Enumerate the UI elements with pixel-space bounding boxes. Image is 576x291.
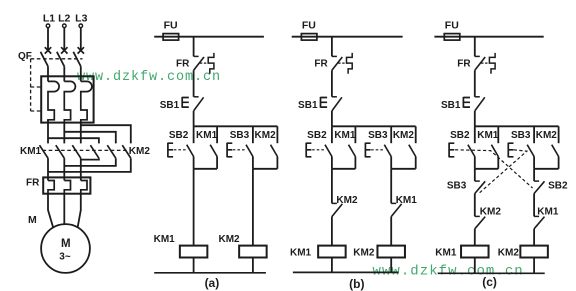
svg-text:(a): (a) — [205, 276, 220, 290]
(c) contact KM1 self-hold — [497, 126, 499, 143]
(c) stop button SB1 NC — [475, 96, 480, 98]
wire jumper phase1 to KM2 bank — [48, 138, 99, 143]
svg-text:KM1: KM1 — [435, 247, 457, 258]
(c) interlock KM1 NC contact — [534, 215, 539, 217]
thermal relay FR element 1 — [48, 181, 54, 194]
(a) wire SB3 down — [252, 157, 254, 169]
motor M 3-phase — [41, 224, 90, 273]
svg-text:KM2: KM2 — [353, 247, 375, 258]
(b) contact KM2 self-hold — [415, 126, 417, 143]
(b) rejoin wire left pair — [332, 168, 356, 170]
contactor KM2 main contact 1 blade — [90, 145, 99, 158]
svg-text:FU: FU — [445, 19, 459, 31]
contactor KM1 main contact 2 blade — [56, 145, 65, 158]
wire L3 down — [80, 28, 82, 51]
KM linkage dashed — [43, 149, 129, 151]
(c) wire SB1 to branch node — [474, 111, 476, 126]
(c) wire SB3 down — [533, 157, 535, 169]
(c) coil KM1 to bottom bus — [474, 258, 476, 274]
(c) button SB3 NC contact left branch — [474, 169, 476, 181]
(a) bottom bus — [154, 272, 266, 274]
svg-text:KM2: KM2 — [498, 247, 520, 258]
(c) wire bus to FR — [474, 37, 476, 57]
svg-text:FR: FR — [314, 58, 328, 69]
svg-text:FR: FR — [26, 178, 40, 189]
(a) control bus with fuse FU — [154, 36, 264, 38]
(b) start button SB2 NO contact — [331, 126, 333, 143]
svg-text:KM2: KM2 — [336, 195, 358, 206]
svg-text:SB1: SB1 — [160, 100, 180, 111]
(a) branch wire — [194, 125, 278, 127]
(b) bottom bus — [293, 271, 399, 273]
(b) FR NC contact — [332, 55, 337, 57]
(b) wire bus to FR — [331, 37, 333, 57]
svg-text:M: M — [28, 214, 37, 226]
svg-text:(c): (c) — [482, 275, 497, 289]
contactor KM2 main contact 3 blade — [122, 145, 131, 158]
(c) mechanical link SB2 dashed — [455, 150, 533, 188]
(c) interlock KM2 NC contact — [475, 215, 480, 217]
(c) wire FR to SB1 — [474, 70, 476, 97]
breaker QF pole 2 blade — [57, 52, 65, 67]
(b) coil KM2 to bottom bus — [390, 258, 392, 273]
svg-text:SB2: SB2 — [169, 130, 189, 141]
wire phase2 to FR — [63, 158, 65, 180]
svg-text:QF: QF — [18, 51, 32, 62]
(b) control bus with fuse FU — [292, 36, 403, 38]
svg-text:KM1: KM1 — [20, 146, 42, 157]
(a) rejoin wire left pair — [194, 168, 218, 170]
wire QF pole 2 to trip box — [63, 66, 65, 81]
breaker QF pole 1 blade — [41, 52, 49, 67]
(a) contact KM1 self-hold — [216, 126, 218, 143]
svg-text:L2: L2 — [58, 12, 70, 24]
svg-text:KM1: KM1 — [396, 195, 418, 206]
svg-text:KM1: KM1 — [154, 234, 176, 245]
svg-text:SB2: SB2 — [450, 130, 470, 141]
(b) stop button SB1 NC — [332, 96, 337, 98]
(c) button SB2 NC contact right branch — [533, 169, 535, 181]
wire pole2 to KM1 bank — [63, 123, 65, 144]
(c) bottom bus — [438, 272, 545, 274]
wire KM2 outputs to phase2 — [64, 158, 116, 166]
svg-text:SB3: SB3 — [447, 180, 467, 191]
wire FR to motor V — [63, 194, 65, 225]
(b) contact KM1 self-hold — [354, 126, 356, 143]
wire QF pole 1 to trip box — [47, 66, 49, 81]
(a) coil KM1 to bottom bus — [193, 258, 195, 273]
wire QF pole 3 to trip box — [80, 66, 82, 81]
breaker QF pole 3 trip element — [81, 81, 92, 122]
(b) wire SB3 down — [390, 157, 392, 169]
(c) mechanical link SB3 dashed — [479, 150, 527, 193]
breaker QF linkage dashed — [31, 58, 83, 60]
(b) wire FR to SB1 — [331, 70, 333, 97]
(b) wire KM2 NC to coil — [331, 217, 333, 246]
(a) start button SB2 NO contact — [193, 126, 195, 143]
svg-text:KM2: KM2 — [480, 206, 502, 217]
svg-text:SB1: SB1 — [298, 100, 318, 111]
wire FR to motor U — [48, 194, 53, 228]
svg-text:SB2: SB2 — [307, 130, 327, 141]
thermal relay FR element 2 — [64, 181, 70, 194]
breaker QF trip unit box — [41, 76, 93, 122]
(b) wire SB1 to branch node — [331, 111, 333, 126]
contactor KM1 main contact 3 blade — [72, 145, 81, 158]
(c) start button SB3 NO contact — [533, 126, 535, 143]
(a) wire SB1 to branch node — [193, 111, 195, 126]
wire jumper phase2 to KM2 bank — [64, 132, 116, 144]
wire phase3 to FR — [80, 158, 82, 180]
wire L1 down — [47, 28, 49, 51]
svg-text:SB2: SB2 — [548, 180, 568, 191]
svg-text:www.dzkfw.com.cn: www.dzkfw.com.cn — [77, 70, 221, 85]
breaker QF pole 2 contact X — [61, 47, 67, 53]
(b) wire KM1 NC to coil — [390, 217, 392, 246]
(a) wire to coil KM1 — [193, 169, 195, 246]
(a) start button SB3 NO contact — [252, 126, 254, 143]
(c) contact KM2 self-hold — [558, 126, 560, 143]
(a) coil KM2 — [239, 246, 267, 258]
(b) interlock KM1 NC contact — [390, 169, 392, 204]
svg-text:L1: L1 — [43, 12, 55, 24]
(a) FR NC contact — [194, 55, 199, 57]
wire L2 down — [63, 28, 65, 51]
svg-text:KM1: KM1 — [290, 247, 312, 258]
(b) wire SB2 down — [331, 157, 333, 169]
(c) rejoin wire left pair — [475, 168, 499, 170]
svg-text:FR: FR — [457, 58, 471, 69]
svg-text:www.dzkfw.com.cn: www.dzkfw.com.cn — [373, 264, 524, 280]
(b) FR thermal element symbol — [338, 62, 346, 64]
svg-text:KM2: KM2 — [219, 234, 241, 245]
(c) start button SB2 NO contact — [474, 126, 476, 143]
(c) control bus with fuse FU — [434, 36, 543, 38]
svg-text:SB3: SB3 — [511, 130, 531, 141]
svg-text:KM1: KM1 — [477, 130, 499, 141]
svg-text:FU: FU — [302, 19, 316, 31]
breaker QF pole 3 contact X — [78, 47, 84, 53]
svg-text:M: M — [61, 238, 71, 250]
(c) wire to coil KM2 — [533, 229, 535, 246]
(c) wire to coil KM1 — [474, 229, 476, 246]
contactor KM2 main contact 2 blade — [107, 145, 116, 158]
contactor KM1 main contact 1 blade — [40, 145, 49, 158]
svg-text:KM1: KM1 — [334, 130, 356, 141]
thermal relay FR element 3 — [81, 181, 87, 194]
svg-text:KM2: KM2 — [536, 130, 558, 141]
svg-text:FU: FU — [164, 19, 178, 31]
(a) stop button SB1 NC — [194, 96, 199, 98]
(a) FR thermal element symbol — [200, 62, 208, 64]
(b) start button SB3 NO contact — [390, 126, 392, 143]
(b) coil KM1 to bottom bus — [331, 258, 333, 273]
svg-text:FR: FR — [176, 58, 190, 69]
wire FR to motor W — [78, 194, 81, 228]
(c) FR thermal element symbol — [481, 62, 489, 64]
wire phase1 to FR — [47, 158, 49, 180]
(b) coil KM2 — [377, 246, 405, 258]
(a) contact KM2 self-hold — [276, 126, 278, 143]
svg-text:KM2: KM2 — [255, 130, 277, 141]
thermal relay FR box — [43, 177, 90, 193]
(b) interlock KM2 NC contact — [331, 169, 333, 204]
(a) coil KM1 — [180, 246, 208, 258]
svg-text:KM2: KM2 — [129, 146, 151, 157]
wire jumper phase3 to KM2 bank — [81, 125, 131, 143]
breaker QF pole 3 blade — [73, 52, 81, 67]
wire pole3 to KM1 bank — [80, 123, 82, 144]
(a) wire SB2 down — [193, 157, 195, 169]
breaker QF dashed enclosure — [30, 59, 32, 111]
wire KM2 outputs cross to phase1 — [48, 158, 131, 172]
(b) coil KM1 — [318, 246, 346, 258]
wire KM2 outputs cross to phase3 — [81, 158, 99, 159]
breaker QF pole 1 contact X — [45, 47, 51, 53]
(a) coil KM2 to bottom bus — [252, 258, 254, 273]
(c) branch wire — [475, 125, 559, 127]
svg-text:L3: L3 — [75, 12, 87, 24]
svg-text:(b): (b) — [349, 277, 364, 291]
svg-text:SB1: SB1 — [441, 100, 461, 111]
svg-text:3~: 3~ — [59, 252, 71, 263]
(c) coil KM2 to bottom bus — [533, 258, 535, 274]
svg-text:SB3: SB3 — [230, 130, 250, 141]
svg-text:KM1: KM1 — [537, 206, 559, 217]
(c) coil KM2 — [520, 246, 548, 258]
(c) wire SB2 down — [474, 157, 476, 169]
(b) rejoin wire right pair — [391, 168, 416, 170]
wire pole1 to KM1 bank — [47, 120, 49, 144]
(a) rejoin wire right pair — [253, 168, 278, 170]
breaker QF pole 2 trip element — [64, 81, 75, 122]
svg-text:KM2: KM2 — [393, 130, 415, 141]
(c) rejoin wire right pair — [534, 168, 559, 170]
(a) wire to coil KM2 — [252, 169, 254, 246]
(a) wire FR to SB1 — [193, 70, 195, 97]
(a) wire bus to FR — [193, 37, 195, 57]
(c) coil KM1 — [461, 246, 489, 258]
svg-text:KM1: KM1 — [196, 130, 218, 141]
(c) FR NC contact — [475, 55, 480, 57]
(b) branch wire — [332, 125, 416, 127]
breaker QF pole 1 trip element — [48, 81, 59, 122]
svg-text:SB3: SB3 — [368, 130, 388, 141]
